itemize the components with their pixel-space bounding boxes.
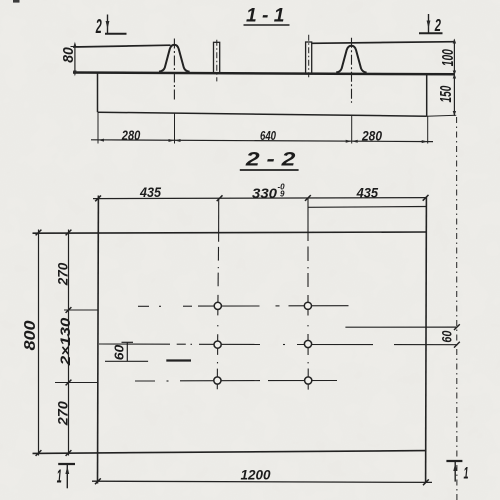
scan smudge top-left (13, 0, 20, 3)
svg-text:2×130: 2×130 (57, 317, 73, 366)
dim 330 with tolerance (252, 183, 285, 201)
svg-text:640: 640 (260, 129, 276, 143)
dim 280 text (right) (361, 129, 382, 144)
dim 435 text (left) (139, 185, 161, 200)
bottom dimension line 1200 (92, 481, 432, 482)
svg-text:435: 435 (139, 185, 161, 200)
dim 80 text (60, 47, 77, 63)
dim 435 text (right) (356, 186, 379, 201)
hole row 1 centerline (138, 305, 349, 308)
hole C2 (305, 377, 312, 384)
title 2 - 2 (245, 149, 296, 171)
hole A1 (214, 302, 221, 309)
title underline (244, 24, 290, 26)
svg-text:9: 9 (280, 190, 285, 199)
hole row 3 centerline (135, 380, 337, 383)
ticks bottom dim (95, 478, 429, 485)
bottom dimension line (91, 140, 433, 142)
loop 1 centerline (173, 39, 175, 102)
short reference line (166, 359, 191, 361)
lifting loop 1 (159, 45, 190, 72)
svg-text:1 - 1: 1 - 1 (246, 5, 285, 27)
dim 2x130 text (57, 317, 73, 366)
ticks inner left dim (66, 230, 72, 456)
section marker 2 (top left) (105, 15, 127, 34)
marker 1 label (bottom right) (464, 464, 469, 482)
right 60 dim ticks (454, 324, 460, 347)
lifting loop 2 (336, 46, 366, 73)
svg-text:280: 280 (121, 128, 141, 143)
embedded pin 2 (306, 42, 312, 73)
inner step line right (308, 206, 426, 209)
hole column 2 (307, 199, 309, 390)
dim 1200 text (241, 468, 271, 483)
dim 640 text (260, 129, 276, 143)
long dash-dot axis right (456, 117, 458, 500)
svg-text:60: 60 (439, 330, 455, 342)
loop 2 centerline (351, 38, 353, 103)
dim 270 text top (55, 262, 71, 286)
left 60 bracket (105, 342, 148, 361)
svg-text:435: 435 (356, 186, 379, 201)
pin 1 centerline (216, 40, 218, 82)
section marker 1 (bottom right) (446, 461, 462, 482)
section marker 2 (top right) (419, 14, 443, 33)
dim 80 line (left) (71, 42, 80, 76)
svg-text:1200: 1200 (241, 468, 271, 483)
hole B2 (304, 340, 311, 347)
svg-text:2: 2 (434, 15, 441, 35)
hole B1 (214, 341, 221, 348)
oblique ticks top dim (95, 195, 428, 201)
dim 100 text (440, 49, 457, 66)
svg-text:1: 1 (57, 466, 62, 487)
arrows bottom dim (98, 139, 428, 144)
dim 60 text right (439, 330, 455, 342)
right 60 dim upper line (345, 326, 457, 328)
marker 2 label (top right) (434, 15, 441, 35)
web bottom edge (98, 112, 427, 116)
svg-text:100: 100 (440, 49, 457, 66)
left dim outer line (800) (38, 230, 40, 456)
slab top edge left segment (73, 45, 171, 47)
svg-text:80: 80 (60, 47, 77, 63)
svg-text:330: 330 (252, 186, 278, 201)
bottom dim extension verticals (97, 113, 99, 144)
extension line row1 left (64, 309, 98, 311)
extension line row3 left (55, 382, 98, 384)
dim 280 text (left) (121, 128, 141, 143)
plate top edge (33, 232, 427, 233)
plate left edge (97, 196, 100, 484)
svg-text:280: 280 (361, 129, 382, 144)
marker 1 label (bottom left) (57, 466, 62, 487)
left dim inner line (270/2x130/270) (68, 230, 70, 456)
slab surface line (73, 73, 455, 75)
plate right edge (425, 197, 428, 483)
hole A2 (304, 302, 311, 309)
hole column 1 (217, 199, 218, 390)
title 1 - 1 (246, 5, 285, 27)
svg-text:1: 1 (464, 464, 469, 482)
hole C1 (214, 377, 221, 384)
section marker 1 (bottom left) (58, 464, 75, 488)
dim 150 text (438, 85, 455, 102)
pin 2 centerline (308, 35, 310, 77)
svg-text:2 - 2: 2 - 2 (245, 149, 296, 171)
web right edge (426, 74, 428, 117)
dim 60 text left (112, 344, 127, 360)
embedded pin 1 (214, 42, 220, 72)
top dimension line of plan (93, 198, 427, 199)
title 2-2 underline (240, 169, 299, 171)
dim line right (100/150) (453, 39, 456, 117)
slab top edge right segment (extends to dim line) (312, 42, 455, 44)
svg-text:60: 60 (112, 344, 127, 360)
marker 2 label (top left) (95, 16, 102, 38)
extension line web bottom to dim (427, 115, 457, 116)
svg-text:150: 150 (438, 85, 455, 102)
ticks outer left dim (36, 230, 42, 456)
svg-text:800: 800 (22, 320, 39, 350)
dim 800 text (22, 320, 39, 350)
svg-text:270: 270 (55, 401, 71, 426)
plate bottom edge (33, 451, 426, 454)
web left edge (97, 73, 99, 113)
svg-text:2: 2 (95, 16, 102, 38)
svg-text:270: 270 (55, 262, 71, 286)
dim 270 text bottom (55, 401, 71, 426)
hole row 2 centerline (99, 343, 457, 346)
